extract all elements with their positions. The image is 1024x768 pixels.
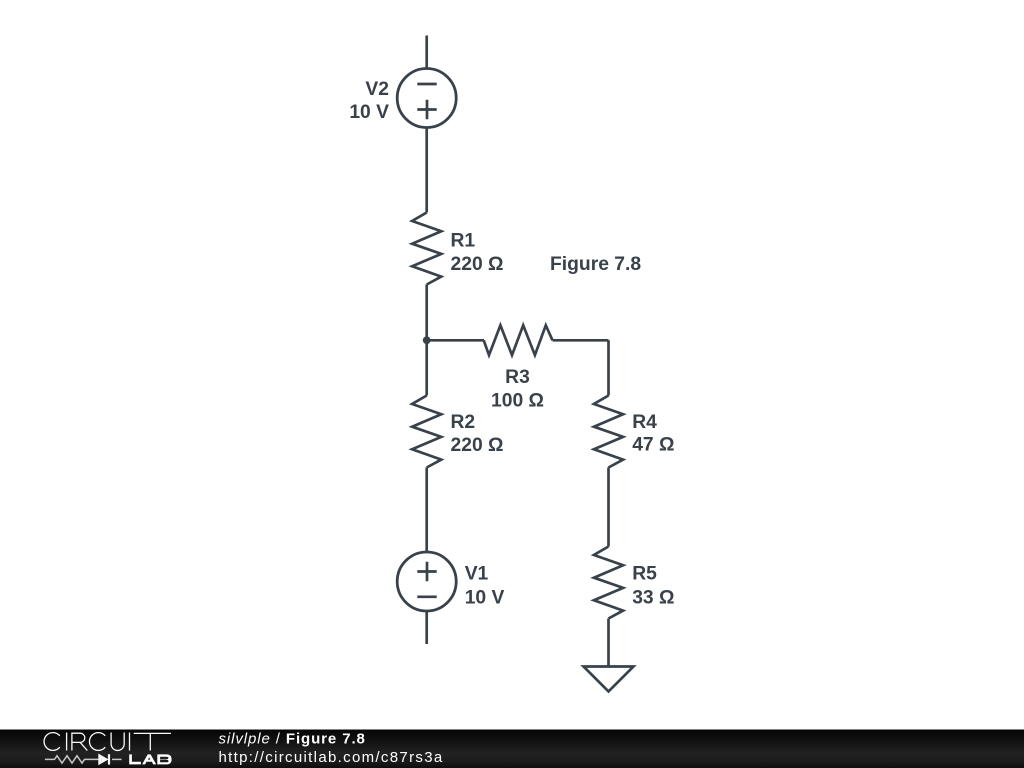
svg-text:R3: R3 [505,367,530,388]
svg-text:10 V: 10 V [349,102,389,123]
svg-text:10 V: 10 V [465,587,505,608]
svg-text:Figure 7.8: Figure 7.8 [550,254,641,275]
svg-text:V1: V1 [465,564,489,585]
svg-text:R1: R1 [451,230,476,251]
svg-text:R2: R2 [451,412,476,433]
svg-text:220 Ω: 220 Ω [451,435,504,456]
svg-text:http://circuitlab.com/c87rs3a: http://circuitlab.com/c87rs3a [219,749,444,766]
svg-text:47 Ω: 47 Ω [632,435,674,456]
svg-text:33 Ω: 33 Ω [632,587,674,608]
svg-text:silvlple / Figure 7.8: silvlple / Figure 7.8 [219,731,366,748]
svg-text:R4: R4 [632,412,657,433]
svg-text:220 Ω: 220 Ω [451,254,504,275]
svg-text:V2: V2 [365,79,389,100]
svg-text:100 Ω: 100 Ω [491,391,544,412]
svg-text:R5: R5 [632,564,657,585]
